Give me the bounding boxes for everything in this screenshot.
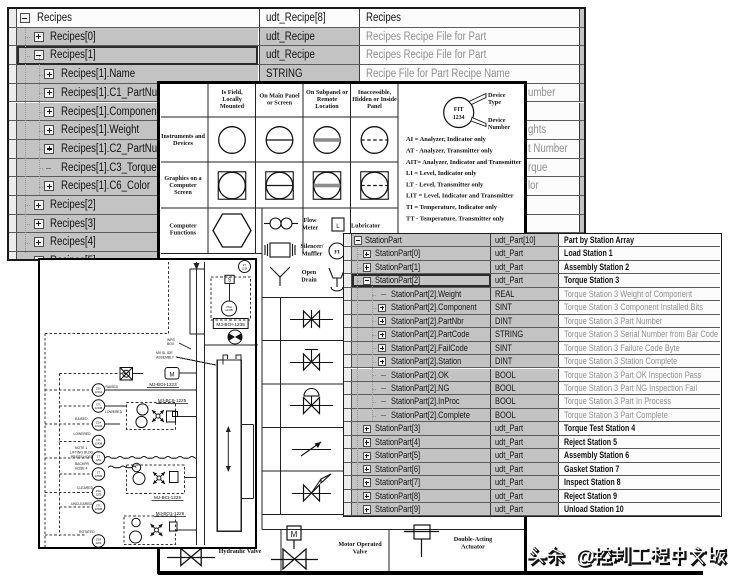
svg-text:UNCLEARED: UNCLEARED bbox=[71, 502, 92, 506]
svg-text:M: M bbox=[291, 530, 298, 539]
svg-text:CTL: CTL bbox=[96, 438, 101, 442]
svg-text:TT - Temperature, Transmitter: TT - Temperature, Transmitter only bbox=[406, 215, 505, 222]
svg-text:On Subpanel or: On Subpanel or bbox=[306, 89, 348, 96]
svg-text:ASSEMBLY: ASSEMBLY bbox=[156, 356, 175, 360]
svg-text:Is Field,: Is Field, bbox=[221, 89, 243, 96]
svg-text:Hidden or Inside: Hidden or Inside bbox=[352, 96, 397, 103]
svg-text:Muffler: Muffler bbox=[302, 251, 323, 258]
svg-text:1243A: 1243A bbox=[95, 424, 103, 428]
svg-text:Inaccessible,: Inaccessible, bbox=[358, 89, 392, 96]
svg-text:Remote: Remote bbox=[317, 96, 338, 103]
svg-text:Instruments and: Instruments and bbox=[161, 133, 205, 140]
svg-text:or Screen: or Screen bbox=[267, 100, 293, 107]
svg-text:1234B: 1234B bbox=[225, 308, 233, 312]
svg-text:On Main Panel: On Main Panel bbox=[259, 93, 300, 100]
svg-text:Type: Type bbox=[488, 99, 501, 106]
svg-text:LT - Level, Transmitter only: LT - Level, Transmitter only bbox=[406, 181, 484, 188]
svg-text:BACKPR: BACKPR bbox=[75, 462, 89, 466]
svg-text:MJ-BO1-1226: MJ-BO1-1226 bbox=[156, 511, 185, 516]
svg-text:TI = Temperature, Indicator on: TI = Temperature, Indicator only bbox=[406, 204, 498, 211]
svg-text:LOWERED: LOWERED bbox=[105, 410, 123, 414]
svg-text:CLEARED: CLEARED bbox=[77, 486, 94, 490]
svg-text:CTL: CTL bbox=[96, 402, 101, 406]
svg-text:LI = Level, Indicator only: LI = Level, Indicator only bbox=[406, 170, 477, 177]
svg-text:1243B: 1243B bbox=[95, 441, 103, 445]
svg-text:Motor Operated: Motor Operated bbox=[338, 541, 382, 548]
svg-text:Locally: Locally bbox=[222, 96, 242, 103]
svg-text:Valve: Valve bbox=[353, 549, 368, 556]
svg-text:Silencer/: Silencer/ bbox=[300, 243, 323, 250]
svg-text:1252B: 1252B bbox=[95, 474, 103, 478]
svg-text:ZT: ZT bbox=[243, 263, 247, 267]
svg-text:LIFTING BLDG: LIFTING BLDG bbox=[70, 451, 94, 455]
svg-text:Panel: Panel bbox=[367, 103, 382, 110]
svg-text:LOWERED: LOWERED bbox=[74, 432, 92, 436]
svg-text:1234: 1234 bbox=[453, 115, 465, 121]
svg-text:Computer: Computer bbox=[169, 223, 196, 230]
svg-text:CTL: CTL bbox=[96, 503, 101, 507]
svg-text:1234: 1234 bbox=[242, 266, 248, 270]
svg-text:1223A: 1223A bbox=[95, 390, 103, 394]
svg-text:ZT: ZT bbox=[97, 470, 101, 474]
svg-text:MJ-BOI-1235: MJ-BOI-1235 bbox=[216, 322, 245, 328]
svg-text:FIT: FIT bbox=[454, 107, 464, 113]
svg-text:ROTATED: ROTATED bbox=[79, 530, 95, 534]
svg-text:Open: Open bbox=[302, 269, 317, 276]
svg-text:MJ-BOI-1223: MJ-BOI-1223 bbox=[149, 382, 177, 387]
svg-text:Location: Location bbox=[315, 103, 339, 110]
svg-text:MJ-BC6-1225: MJ-BC6-1225 bbox=[158, 398, 187, 403]
svg-text:Mounted: Mounted bbox=[220, 103, 245, 110]
svg-text:Meter: Meter bbox=[302, 225, 318, 232]
svg-text:PRESS HOSE: PRESS HOSE bbox=[71, 455, 94, 459]
svg-text:Device: Device bbox=[488, 117, 506, 124]
svg-text:NOTE 1: NOTE 1 bbox=[75, 446, 87, 450]
svg-text:HOSE 4: HOSE 4 bbox=[75, 467, 88, 471]
svg-text:Functions: Functions bbox=[170, 230, 197, 237]
svg-text:LIT = Level, Indicator and Tra: LIT = Level, Indicator and Transmitter bbox=[406, 193, 514, 200]
svg-text:L: L bbox=[336, 223, 340, 230]
svg-text:S: S bbox=[228, 278, 232, 284]
svg-text:ZSH: ZSH bbox=[96, 386, 101, 390]
svg-text:Computer: Computer bbox=[169, 182, 196, 189]
svg-text:M: M bbox=[170, 373, 175, 379]
svg-text:RAISED: RAISED bbox=[106, 385, 119, 389]
svg-text:1263: 1263 bbox=[96, 541, 102, 545]
svg-text:Device: Device bbox=[488, 92, 506, 99]
svg-text:MX SL IDE: MX SL IDE bbox=[156, 351, 173, 355]
svg-text:RAISED: RAISED bbox=[75, 417, 88, 421]
svg-text:ZSH: ZSH bbox=[96, 489, 101, 493]
svg-text:Lubricator: Lubricator bbox=[351, 223, 380, 230]
svg-text:BOX: BOX bbox=[167, 342, 175, 346]
svg-text:AI = Analyzer, Indicator only: AI = Analyzer, Indicator only bbox=[406, 136, 487, 143]
svg-text:AT - Analyzer, Transmitter onl: AT - Analyzer, Transmitter only bbox=[406, 148, 493, 155]
svg-text:Devices: Devices bbox=[173, 140, 194, 147]
svg-text:Screen: Screen bbox=[174, 189, 192, 196]
svg-text:@: @ bbox=[575, 546, 595, 568]
svg-text:Graphics on a: Graphics on a bbox=[164, 175, 201, 182]
svg-text:FI: FI bbox=[334, 250, 340, 256]
svg-text:1223B: 1223B bbox=[95, 406, 103, 410]
svg-text:Number: Number bbox=[488, 124, 510, 131]
svg-text:Double-Acting: Double-Acting bbox=[454, 536, 493, 543]
svg-text:ZSH: ZSH bbox=[96, 420, 101, 424]
svg-text:1253B: 1253B bbox=[95, 507, 103, 511]
svg-text:Drain: Drain bbox=[301, 277, 317, 284]
svg-text:AIT= Analyzer, Indicator and T: AIT= Analyzer, Indicator and Transmitter bbox=[406, 159, 522, 166]
svg-text:ZT: ZT bbox=[97, 454, 101, 458]
svg-text:PSH: PSH bbox=[226, 305, 231, 309]
svg-text:MJ-BCI-1225: MJ-BCI-1225 bbox=[154, 495, 182, 500]
svg-text:ZSR: ZSR bbox=[96, 537, 101, 541]
svg-text:1253: 1253 bbox=[96, 492, 102, 496]
svg-text:Flow: Flow bbox=[303, 217, 317, 224]
svg-text:Actuator: Actuator bbox=[461, 544, 485, 551]
svg-text:1252: 1252 bbox=[96, 458, 102, 462]
